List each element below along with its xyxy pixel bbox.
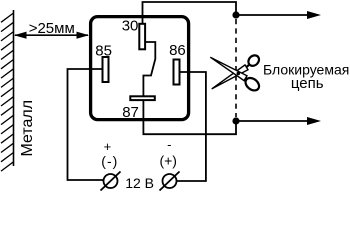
label 12 В xyxy=(125,175,154,191)
svg-text:>25мм: >25мм xyxy=(29,20,75,37)
label (+) xyxy=(159,153,177,169)
dimension arrow >25mm xyxy=(14,32,89,39)
label + xyxy=(104,139,112,154)
top arrow (circuit continues) xyxy=(236,11,321,19)
pin 30 terminal bar xyxy=(139,24,145,50)
label 85 xyxy=(95,42,112,59)
pin 85 terminal bar xyxy=(103,57,109,82)
scissors (cut here) xyxy=(210,53,261,93)
right battery terminal circle xyxy=(160,172,180,191)
wire: 86 to right battery terminal xyxy=(177,72,206,181)
switch arm 30->87 xyxy=(143,42,155,96)
wall hatching xyxy=(1,13,14,171)
label Металл xyxy=(19,100,36,157)
bottom arrow (circuit continues) xyxy=(236,117,321,125)
wire: pin30 up and over to top junction xyxy=(143,2,237,24)
wire: 85 to left battery terminal xyxy=(68,69,104,180)
label (-) xyxy=(101,153,118,169)
svg-text:Металл: Металл xyxy=(19,100,36,157)
label 30 xyxy=(122,18,139,35)
contact bar 87 xyxy=(130,96,155,100)
dashed blocked-circuit wire xyxy=(235,19,237,117)
label 87 xyxy=(122,104,139,121)
svg-text:12 В: 12 В xyxy=(125,175,154,191)
wall (metal surface) line xyxy=(13,10,15,166)
label 86 xyxy=(169,42,186,59)
svg-text:(-): (-) xyxy=(101,153,118,169)
top junction dot xyxy=(232,11,239,18)
label Блокируемая xyxy=(263,62,349,78)
left battery terminal circle xyxy=(101,172,121,191)
svg-text:30: 30 xyxy=(122,18,139,35)
bottom junction dot xyxy=(232,117,239,124)
svg-text:87: 87 xyxy=(122,104,139,121)
label цепь xyxy=(291,75,324,92)
pin 86 terminal bar xyxy=(174,60,180,85)
svg-text:-: - xyxy=(167,137,171,152)
dimension label >25мм xyxy=(29,20,75,37)
relay body xyxy=(91,17,189,120)
svg-text:цепь: цепь xyxy=(291,75,324,92)
svg-text:85: 85 xyxy=(95,42,112,59)
svg-text:86: 86 xyxy=(169,42,186,59)
label - xyxy=(167,137,171,152)
svg-text:(+): (+) xyxy=(159,153,177,169)
wire: 87 down, right, up to bottom junction xyxy=(143,100,236,134)
